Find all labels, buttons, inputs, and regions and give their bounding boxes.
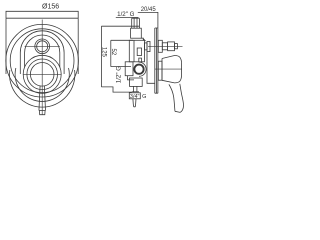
hub circle r19 (23, 55, 61, 93)
dim 52 bottom tick (111, 66, 131, 68)
lever tip (175, 111, 180, 112)
body inner line (133, 40, 135, 62)
top pipe (132, 18, 140, 28)
hub bottom arc r33 (9, 70, 74, 107)
hub bell (162, 55, 182, 82)
plate outer circle A (6, 24, 79, 97)
bottom stub (133, 99, 136, 107)
dim Ø156 bracket (6, 11, 78, 18)
bottom pipe (134, 86, 137, 91)
flange notch (141, 38, 145, 41)
step box near plate (145, 43, 148, 50)
cartridge ring2 (162, 43, 167, 50)
hub diameter line (23, 73, 61, 75)
dome inner (25, 35, 60, 67)
dim 52 line (110, 40, 112, 66)
socket step (128, 76, 135, 80)
hub base rect (158, 61, 162, 80)
body small rect (137, 48, 141, 56)
handle stem cap (39, 110, 46, 112)
svg-text:52: 52 (110, 49, 116, 56)
dim 125 top tick (101, 25, 139, 27)
handle stem left edge (39, 86, 40, 111)
plate square right side (77, 18, 79, 74)
label underline (116, 16, 139, 18)
dim 52 top tick (111, 39, 133, 41)
handle stem tip (39, 111, 45, 115)
cartridge nut (168, 42, 175, 51)
inlet outer thin circle (139, 62, 146, 76)
lever inner edge (180, 84, 184, 113)
hub circle r15 (27, 59, 58, 90)
svg-text:1/2" G: 1/2" G (117, 11, 135, 18)
cartridge centerline (148, 45, 183, 47)
20/45 bracket (138, 12, 158, 28)
svg-text:1/2" G: 1/2" G (115, 66, 122, 84)
hub circle r12 (30, 63, 54, 87)
inlet thick ring (134, 65, 143, 74)
box under circle (130, 78, 143, 86)
crosshair inner circle (37, 41, 48, 52)
hub centerline (155, 68, 182, 70)
wall plate edge-on (155, 28, 158, 93)
crosshair horizontal line (25, 45, 60, 47)
dim 125 line (100, 26, 102, 87)
crosshair outer circle (diverter) (35, 39, 50, 54)
dim 125 bottom tick (101, 87, 131, 92)
hub bottom arc r27 (15, 68, 69, 101)
handle stem right edge (44, 86, 45, 111)
cartridge stub (175, 44, 178, 49)
step box 2 (147, 42, 150, 52)
cartridge ring1 (158, 40, 162, 52)
svg-text:G: G (142, 94, 146, 100)
socket left (125, 62, 133, 76)
vertical centerline (41, 20, 43, 115)
svg-text:Ø156: Ø156 (42, 4, 59, 11)
pipe flange box (131, 28, 142, 38)
lever outer edge (169, 84, 175, 111)
body tiny box (139, 58, 142, 62)
bottom fitting box (129, 93, 140, 99)
dome outer (20, 31, 64, 74)
svg-text:3/4": 3/4" (130, 94, 140, 100)
bottom pipe cap (132, 91, 139, 93)
plate square left side (5, 18, 7, 74)
plate inner circle B (10, 29, 74, 93)
body box (129, 40, 144, 62)
body right step (147, 52, 155, 84)
svg-text:125: 125 (101, 47, 107, 58)
plate square top (6, 17, 78, 19)
